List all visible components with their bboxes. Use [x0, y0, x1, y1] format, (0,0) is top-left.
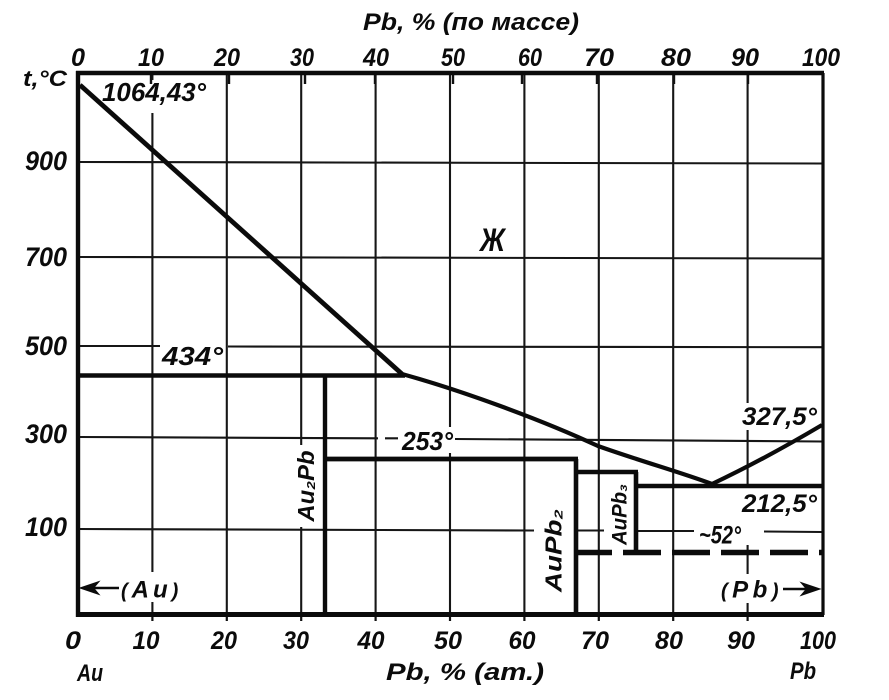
svg-text:20: 20: [210, 627, 237, 655]
compound line Au2Pb: [323, 375, 327, 615]
svg-text:t,°C: t,°C: [23, 66, 68, 91]
horizontal gridline 300: [78, 437, 822, 442]
svg-text:30: 30: [290, 44, 314, 72]
compound line AuPb2: [574, 459, 579, 615]
svg-text:(Pb): (Pb): [721, 577, 783, 604]
svg-text:434°: 434°: [161, 341, 224, 371]
horizontal gridline 500: [78, 346, 822, 347]
horizontal gridline 700: [78, 257, 822, 259]
axis frame: right axis: [821, 73, 824, 615]
peritectic line 434: [78, 373, 405, 377]
vertical gridline 80%: [672, 73, 674, 615]
peritectic line 253: [325, 457, 578, 462]
dashed line ~52: [574, 550, 822, 555]
eutectic line 212.5: [636, 484, 822, 489]
svg-text:30: 30: [283, 627, 309, 655]
svg-text:60: 60: [509, 627, 536, 655]
svg-text:253°: 253°: [401, 426, 454, 456]
svg-text:Pb, % (по массе): Pb, % (по массе): [363, 9, 579, 36]
svg-text:Pb, % (ат.): Pb, % (ат.): [386, 659, 544, 686]
svg-text:40: 40: [362, 44, 389, 72]
vertical gridline 20%: [226, 73, 228, 615]
svg-text:100: 100: [25, 512, 67, 542]
svg-text:Pb: Pb: [790, 658, 816, 685]
arrow (Au): [80, 582, 119, 595]
svg-text:70: 70: [581, 627, 609, 655]
top axis ticks (mass%): [151, 75, 748, 84]
horizontal gridline 900: [78, 162, 822, 164]
svg-text:300: 300: [25, 419, 67, 449]
svg-text:Au: Au: [76, 660, 103, 687]
svg-text:20: 20: [213, 44, 240, 72]
svg-text:AuPb₂: AuPb₂: [541, 509, 567, 593]
svg-text:Au₂Pb: Au₂Pb: [293, 451, 319, 523]
liquidus right branch (eutectic to Pb 327.5): [712, 425, 822, 484]
svg-text:900: 900: [25, 146, 67, 176]
top tick labels: [71, 44, 840, 72]
svg-text:10: 10: [133, 627, 160, 655]
svg-text:500: 500: [25, 331, 67, 361]
arrow (Pb): [783, 583, 820, 596]
svg-text:0: 0: [71, 44, 85, 72]
vertical gridline 60%: [523, 73, 525, 615]
svg-text:50: 50: [434, 627, 462, 655]
liquidus left branch (Au melting 1064.43 to peritectic bend): [80, 85, 402, 374]
svg-text:50: 50: [441, 44, 465, 72]
svg-text:90: 90: [727, 627, 755, 655]
horizontal gridline 100: [78, 529, 822, 532]
axis frame: left axis: [76, 71, 80, 617]
peritectic line 223 (AuPb2-AuPb3): [574, 470, 638, 475]
svg-text:60: 60: [518, 44, 542, 72]
vertical gridline 90%: [747, 73, 749, 615]
vertical gridline 50%: [449, 73, 451, 615]
svg-text:~52°: ~52°: [699, 522, 742, 550]
svg-text:70: 70: [584, 44, 614, 72]
compound line AuPb3: [634, 472, 639, 552]
vertical gridline 30%: [300, 73, 302, 615]
liquidus middle branch (bend to eutectic): [402, 374, 712, 484]
axis frame: bottom axis: [76, 612, 824, 617]
bottom tick labels: [65, 627, 836, 655]
vertical gridline 10%: [151, 73, 153, 615]
bottom axis ticks: [152, 612, 747, 621]
vertical gridline 40%: [375, 73, 377, 615]
svg-text:100: 100: [802, 44, 840, 72]
svg-text:90: 90: [731, 44, 759, 72]
svg-text:40: 40: [357, 627, 385, 655]
vertical gridline 70%: [598, 73, 600, 615]
svg-text:212,5°: 212,5°: [741, 490, 818, 518]
svg-text:10: 10: [138, 44, 164, 72]
svg-text:327,5°: 327,5°: [742, 403, 818, 431]
svg-text:1064,43°: 1064,43°: [102, 79, 207, 107]
svg-text:700: 700: [25, 242, 67, 272]
svg-text:80: 80: [655, 627, 683, 655]
svg-text:0: 0: [65, 627, 81, 655]
svg-text:Ж: Ж: [478, 222, 507, 258]
left tick labels: [25, 146, 67, 542]
svg-text:80: 80: [661, 44, 691, 72]
svg-text:(Au): (Au): [121, 577, 182, 604]
axis frame: top axis: [76, 71, 824, 75]
svg-text:100: 100: [800, 627, 836, 655]
svg-text:AuPb₃: AuPb₃: [609, 484, 632, 546]
